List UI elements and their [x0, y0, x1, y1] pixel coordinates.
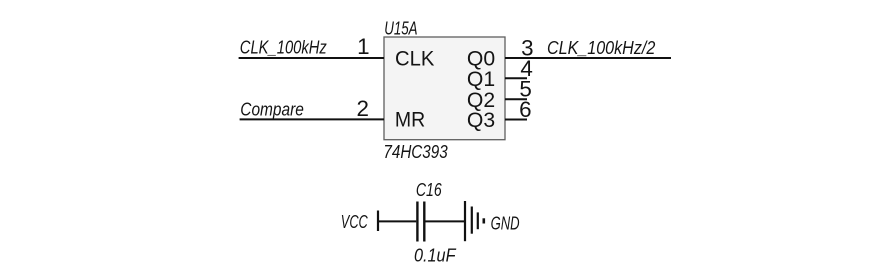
- svg-text:GND: GND: [491, 213, 520, 233]
- svg-text:Compare: Compare: [240, 99, 303, 119]
- svg-text:VCC: VCC: [341, 212, 369, 232]
- svg-text:MR: MR: [395, 109, 425, 132]
- svg-text:6: 6: [519, 97, 531, 122]
- svg-text:74HC393: 74HC393: [383, 142, 447, 162]
- svg-text:Q1: Q1: [467, 68, 495, 91]
- svg-text:CLK_100kHz: CLK_100kHz: [240, 38, 327, 58]
- svg-text:1: 1: [357, 34, 369, 59]
- svg-text:Q3: Q3: [467, 109, 495, 132]
- svg-text:C16: C16: [416, 180, 443, 200]
- svg-text:CLK_100kHz/2: CLK_100kHz/2: [547, 38, 655, 58]
- svg-text:2: 2: [356, 96, 368, 121]
- svg-text:CLK: CLK: [395, 47, 434, 70]
- svg-text:U15A: U15A: [384, 19, 417, 39]
- svg-text:0.1uF: 0.1uF: [414, 246, 456, 266]
